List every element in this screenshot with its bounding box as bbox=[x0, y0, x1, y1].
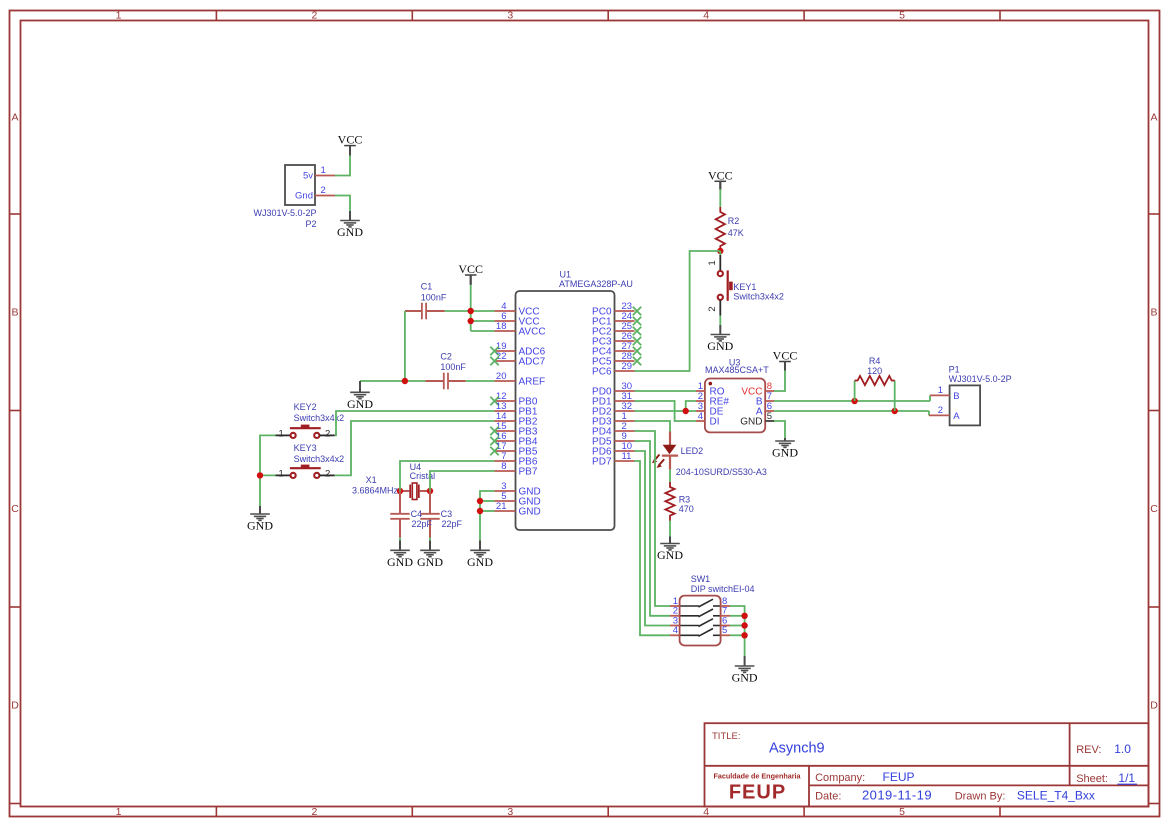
svg-text:1: 1 bbox=[321, 165, 326, 176]
svg-text:GND: GND bbox=[247, 519, 273, 533]
svg-text:1.0: 1.0 bbox=[1114, 742, 1131, 756]
svg-text:Switch3x4x2: Switch3x4x2 bbox=[294, 454, 345, 464]
svg-text:Date:: Date: bbox=[815, 791, 841, 803]
svg-text:1: 1 bbox=[707, 260, 718, 265]
svg-text:4: 4 bbox=[703, 806, 709, 818]
svg-text:100nF: 100nF bbox=[421, 292, 447, 302]
svg-text:5v: 5v bbox=[303, 171, 313, 182]
svg-text:D: D bbox=[11, 700, 19, 712]
svg-text:Company:: Company: bbox=[815, 772, 865, 784]
svg-text:21: 21 bbox=[496, 501, 507, 512]
svg-text:5: 5 bbox=[899, 806, 905, 818]
svg-text:GND: GND bbox=[387, 555, 413, 569]
svg-text:204-10SURD/S530-A3: 204-10SURD/S530-A3 bbox=[676, 467, 767, 477]
svg-text:GND: GND bbox=[707, 339, 733, 353]
svg-text:2: 2 bbox=[325, 469, 330, 480]
svg-text:R2: R2 bbox=[728, 216, 740, 226]
svg-text:REV:: REV: bbox=[1076, 744, 1101, 756]
svg-text:C1: C1 bbox=[421, 282, 433, 292]
svg-text:VCC: VCC bbox=[338, 133, 363, 147]
svg-text:P2: P2 bbox=[305, 219, 316, 229]
svg-text:PD7: PD7 bbox=[592, 457, 612, 468]
svg-text:1: 1 bbox=[116, 10, 122, 22]
svg-text:5: 5 bbox=[767, 411, 772, 422]
svg-text:20: 20 bbox=[496, 371, 507, 382]
svg-text:Cristal: Cristal bbox=[410, 471, 436, 481]
svg-text:470: 470 bbox=[679, 504, 694, 514]
svg-text:D: D bbox=[1150, 700, 1158, 712]
svg-text:2: 2 bbox=[321, 185, 326, 196]
svg-text:Faculdade de Engenharia: Faculdade de Engenharia bbox=[713, 772, 801, 781]
svg-text:C4: C4 bbox=[411, 509, 423, 519]
svg-text:GND: GND bbox=[740, 417, 762, 428]
svg-text:A: A bbox=[1150, 112, 1157, 124]
svg-text:2: 2 bbox=[938, 405, 943, 416]
svg-text:22pF: 22pF bbox=[412, 519, 433, 529]
svg-text:Switch3x4x2: Switch3x4x2 bbox=[733, 292, 784, 302]
svg-text:VCC: VCC bbox=[458, 262, 483, 276]
svg-text:GND: GND bbox=[337, 225, 363, 239]
svg-text:TITLE:: TITLE: bbox=[712, 731, 741, 742]
svg-text:Sheet:: Sheet: bbox=[1076, 773, 1108, 785]
svg-text:B: B bbox=[953, 391, 959, 402]
svg-text:GND: GND bbox=[732, 671, 758, 685]
svg-text:A: A bbox=[953, 411, 960, 422]
svg-text:1: 1 bbox=[279, 469, 284, 480]
svg-text:18: 18 bbox=[496, 321, 507, 332]
svg-text:PB7: PB7 bbox=[519, 467, 538, 478]
svg-text:LED2: LED2 bbox=[681, 446, 704, 456]
svg-text:GND: GND bbox=[772, 446, 798, 460]
svg-text:1: 1 bbox=[938, 385, 943, 396]
svg-text:C: C bbox=[11, 503, 19, 515]
svg-text:GND: GND bbox=[657, 548, 683, 562]
svg-text:47K: 47K bbox=[728, 228, 744, 238]
svg-text:KEY3: KEY3 bbox=[294, 443, 317, 453]
svg-text:22: 22 bbox=[496, 351, 507, 362]
svg-text:VCC: VCC bbox=[773, 349, 798, 363]
svg-text:C2: C2 bbox=[440, 351, 452, 361]
svg-text:4: 4 bbox=[673, 625, 678, 636]
svg-text:C3: C3 bbox=[441, 509, 453, 519]
svg-text:PC6: PC6 bbox=[592, 367, 612, 378]
svg-text:3: 3 bbox=[507, 10, 513, 22]
svg-text:ATMEGA328P-AU: ATMEGA328P-AU bbox=[559, 279, 633, 289]
svg-text:FEUP: FEUP bbox=[729, 782, 786, 804]
svg-text:FEUP: FEUP bbox=[883, 770, 915, 784]
svg-text:2: 2 bbox=[707, 306, 718, 311]
svg-text:C: C bbox=[1150, 503, 1158, 515]
svg-text:R4: R4 bbox=[869, 356, 881, 366]
svg-text:AREF: AREF bbox=[519, 377, 546, 388]
svg-text:KEY1: KEY1 bbox=[733, 282, 756, 292]
svg-text:R3: R3 bbox=[679, 495, 691, 505]
svg-text:WJ301V-5.0-2P: WJ301V-5.0-2P bbox=[949, 374, 1012, 384]
svg-text:2019-11-19: 2019-11-19 bbox=[862, 788, 932, 803]
svg-text:GND: GND bbox=[347, 397, 373, 411]
svg-text:MAX485CSA+T: MAX485CSA+T bbox=[705, 365, 769, 375]
svg-text:DIP switchEI-04: DIP switchEI-04 bbox=[691, 584, 755, 594]
svg-text:3: 3 bbox=[507, 806, 513, 818]
svg-text:SELE_T4_Bxx: SELE_T4_Bxx bbox=[1017, 789, 1095, 803]
svg-text:GND: GND bbox=[519, 507, 541, 518]
svg-text:11: 11 bbox=[622, 451, 632, 462]
svg-text:1: 1 bbox=[279, 429, 284, 440]
svg-text:3.6864MHz: 3.6864MHz bbox=[352, 485, 399, 495]
svg-text:4: 4 bbox=[698, 411, 703, 422]
svg-text:5: 5 bbox=[722, 625, 727, 636]
svg-text:Gnd: Gnd bbox=[295, 191, 313, 202]
svg-text:8: 8 bbox=[501, 461, 506, 472]
svg-text:Drawn By:: Drawn By: bbox=[955, 791, 1006, 803]
svg-text:100nF: 100nF bbox=[440, 362, 466, 372]
svg-text:B: B bbox=[11, 307, 18, 319]
svg-text:GND: GND bbox=[467, 555, 493, 569]
svg-text:B: B bbox=[1150, 307, 1157, 319]
svg-text:AVCC: AVCC bbox=[519, 327, 546, 338]
svg-text:120: 120 bbox=[867, 366, 882, 376]
svg-text:SW1: SW1 bbox=[691, 574, 711, 584]
svg-text:VCC: VCC bbox=[708, 168, 733, 182]
svg-text:2: 2 bbox=[311, 10, 317, 22]
svg-text:4: 4 bbox=[703, 10, 709, 22]
svg-text:WJ301V-5.0-2P: WJ301V-5.0-2P bbox=[253, 208, 316, 218]
svg-text:2: 2 bbox=[325, 429, 330, 440]
svg-text:DI: DI bbox=[710, 417, 720, 428]
svg-text:X1: X1 bbox=[366, 475, 377, 485]
svg-text:1: 1 bbox=[116, 806, 122, 818]
svg-text:U1: U1 bbox=[560, 270, 572, 280]
svg-text:KEY2: KEY2 bbox=[294, 402, 317, 412]
svg-text:A: A bbox=[11, 112, 18, 124]
svg-text:22pF: 22pF bbox=[442, 519, 463, 529]
svg-text:Asynch9: Asynch9 bbox=[769, 740, 825, 756]
svg-text:2: 2 bbox=[311, 806, 317, 818]
svg-text:GND: GND bbox=[417, 555, 443, 569]
svg-text:1/1: 1/1 bbox=[1118, 771, 1135, 785]
svg-text:ADC7: ADC7 bbox=[519, 357, 546, 368]
svg-text:5: 5 bbox=[899, 10, 905, 22]
svg-text:29: 29 bbox=[622, 361, 633, 372]
